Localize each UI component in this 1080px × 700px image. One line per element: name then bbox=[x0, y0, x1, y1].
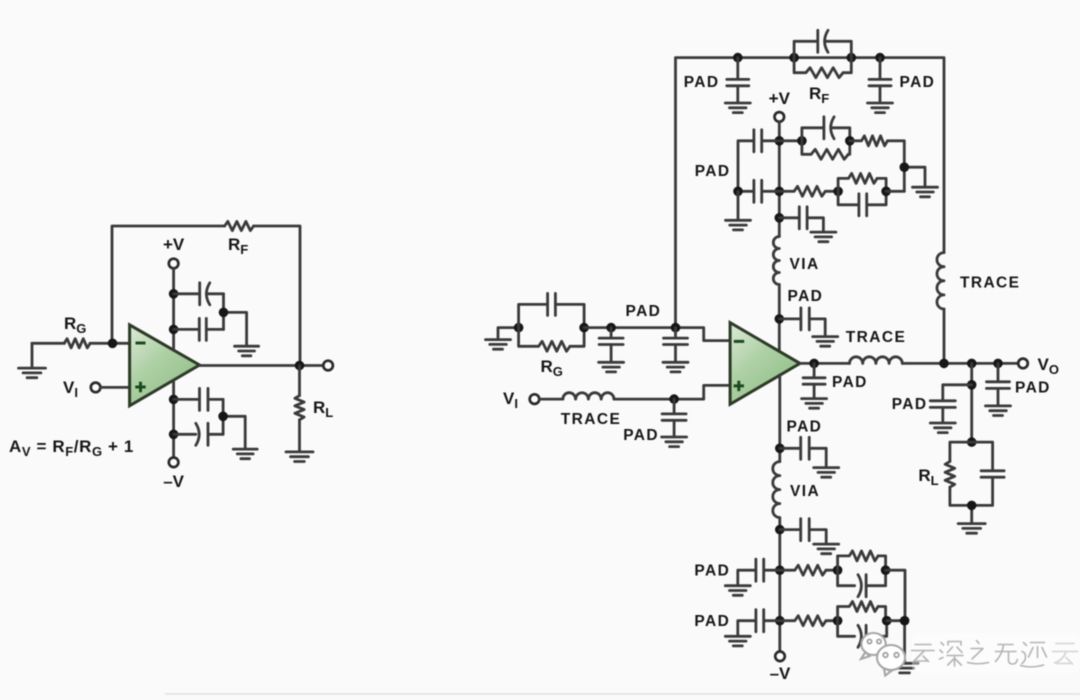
capacitor PAD -V rail lower bbox=[780, 519, 826, 544]
node input dot J bbox=[514, 323, 524, 333]
resistor +V mid parallel bbox=[838, 173, 877, 191]
node cap junction dot (-V group) bbox=[218, 412, 228, 422]
ground PAD output3 bbox=[986, 406, 1011, 416]
resistor RL right circuit bbox=[945, 461, 955, 487]
capacitor PAD output3 bbox=[987, 363, 1010, 405]
capacitor PAD at +V rail bottom bbox=[779, 308, 825, 336]
ground PAD +V left bbox=[726, 220, 751, 230]
wire RG right side bbox=[570, 328, 584, 347]
node feedback junction dot bbox=[671, 323, 681, 333]
op-amp U1 bbox=[130, 325, 200, 406]
node +V chain dot E bbox=[797, 136, 807, 146]
svg-text:TRACE: TRACE bbox=[561, 411, 621, 428]
watermark text wu bbox=[996, 645, 1018, 665]
wire +V chain parallel right bbox=[848, 141, 850, 155]
resistor -V row1 bbox=[780, 565, 826, 575]
capacitor PAD +V bottom bbox=[779, 207, 823, 232]
resistor -V row2 bbox=[780, 616, 826, 626]
node -V row2 dot C bbox=[882, 616, 892, 626]
watermark text ji bbox=[1021, 643, 1047, 667]
node output dot O bbox=[993, 359, 1003, 369]
ground input left bbox=[498, 328, 519, 339]
wire +V mid parallel top right bbox=[877, 178, 886, 191]
capacitor RL parallel bbox=[981, 471, 1004, 477]
inductor TRACE input bbox=[563, 393, 614, 399]
ground PAD -V rail upper bbox=[814, 468, 839, 478]
svg-text:PAD: PAD bbox=[900, 74, 936, 91]
node PAD +V left dot bbox=[733, 187, 743, 197]
wire -V row2 bbox=[826, 619, 838, 622]
U1 minus sign bbox=[136, 342, 146, 345]
wire +V rail right circuit bbox=[778, 122, 781, 352]
resistor RL (left circuit) bbox=[295, 396, 304, 420]
terminal -V right circuit bbox=[775, 652, 785, 662]
capacitor RF parallel branch bbox=[794, 30, 851, 57]
node output dot M bbox=[939, 359, 949, 369]
wire +V chain to ground branch bbox=[888, 141, 926, 192]
capacitor PAD -V row2 bbox=[738, 610, 780, 636]
node -V row1 dot C bbox=[881, 565, 891, 575]
ground PAD top-right bbox=[868, 103, 893, 113]
watermark text yun bbox=[912, 645, 935, 662]
node inverting input dot bbox=[108, 339, 118, 349]
terminal VI right circuit bbox=[530, 394, 540, 404]
ground +V bypass group bbox=[235, 346, 259, 356]
node output dot L bbox=[809, 359, 819, 369]
svg-text:PAD: PAD bbox=[623, 427, 659, 444]
wire -V row1 to row2 bbox=[886, 570, 905, 621]
ground PAD inverting 2 bbox=[663, 362, 688, 372]
capacitor PAD top-left bbox=[727, 58, 749, 103]
wire +V mid row bbox=[825, 190, 838, 193]
node +V chain dot F bbox=[845, 136, 855, 146]
inductor TRACE output bbox=[850, 357, 903, 364]
svg-text:PAD: PAD bbox=[788, 288, 824, 305]
svg-text:PAD: PAD bbox=[626, 303, 662, 320]
wire caps junction to ground (+V group) bbox=[224, 294, 247, 346]
svg-text:TRACE: TRACE bbox=[960, 275, 1020, 292]
svg-text:VIA: VIA bbox=[790, 256, 820, 273]
svg-text:PAD: PAD bbox=[695, 163, 731, 180]
watermark background strip bbox=[912, 633, 1080, 673]
node +V rail dot PAD bbox=[775, 314, 785, 324]
wire feedback top loop right circuit bbox=[676, 58, 945, 364]
U2 plus sign bbox=[734, 381, 744, 391]
ground PAD noninverting bbox=[662, 437, 687, 447]
inductor TRACE feedback (right vertical) bbox=[937, 253, 944, 309]
wire -V row2 to ground bbox=[887, 621, 905, 663]
watermark WeChat bubble large bbox=[861, 633, 886, 659]
resistor +V chain series bbox=[850, 136, 888, 146]
capacitor +V bypass 2 (left circuit) bbox=[174, 318, 224, 340]
node RL drop dot bbox=[967, 380, 977, 390]
terminal +V right circuit bbox=[775, 112, 785, 122]
watermark partial char right edge bbox=[1053, 644, 1078, 665]
resistor +V chain parallel bbox=[802, 141, 848, 160]
svg-text:–V: –V bbox=[770, 664, 791, 683]
wire +V rail left circuit bbox=[172, 268, 175, 350]
wire PAD +V left to ground bbox=[737, 191, 740, 219]
watermark text shen bbox=[940, 642, 964, 667]
node -V rail dot 1 bbox=[775, 444, 785, 454]
terminal -V left circuit bbox=[169, 458, 179, 468]
svg-text:PAD: PAD bbox=[832, 374, 868, 391]
svg-text:VIA: VIA bbox=[790, 483, 820, 500]
node input dot PAD1 bbox=[606, 323, 616, 333]
capacitor -V bypass 1 (left circuit) bbox=[174, 388, 224, 410]
capacitor -V row2 parallel bbox=[838, 621, 887, 648]
svg-text:PAD: PAD bbox=[787, 419, 823, 436]
svg-text:PAD: PAD bbox=[684, 74, 720, 91]
svg-text:+V: +V bbox=[769, 89, 791, 108]
node -V row1 dot bbox=[775, 565, 785, 575]
node -V row1 dot B bbox=[833, 565, 843, 575]
resistor RF right circuit bbox=[794, 58, 843, 78]
wire feedback loop left circuit bbox=[112, 226, 300, 366]
ground RL right circuit bbox=[958, 524, 985, 534]
svg-text:PAD: PAD bbox=[892, 396, 928, 413]
svg-text:PAD: PAD bbox=[694, 613, 730, 630]
node input dot PAD3 bbox=[669, 394, 679, 404]
node +V mid dot H bbox=[833, 187, 843, 197]
wire inverting input net bbox=[584, 328, 730, 341]
inductor VIA (-V rail) bbox=[773, 462, 780, 518]
node output dot N bbox=[967, 359, 977, 369]
wire RL branch bbox=[298, 366, 301, 452]
wire RF right side bbox=[843, 58, 851, 73]
capacitor -V row1 parallel bbox=[838, 570, 886, 597]
node output dot left circuit bbox=[295, 361, 305, 371]
capacitor -V bypass 2 (left circuit) bbox=[174, 423, 224, 445]
terminal VI bbox=[91, 383, 101, 393]
node +V rail dot 3 bbox=[775, 213, 785, 223]
wire +V chain row1 bbox=[779, 139, 802, 142]
node RL bottom dot bbox=[967, 501, 977, 511]
node RL top dot bbox=[967, 437, 977, 447]
wire -V row2 parallel right bbox=[878, 607, 886, 621]
wire -V rail left circuit bbox=[172, 380, 175, 457]
op-amp U2 bbox=[730, 323, 800, 405]
capacitor +V bypass 1 (left circuit) bbox=[174, 283, 224, 305]
node +V rail dot lower bbox=[169, 325, 179, 335]
wire noninverting input net bbox=[614, 385, 730, 399]
watermark bubble eyes bbox=[867, 639, 898, 657]
ground -V network bbox=[891, 663, 918, 673]
node top wire dot A bbox=[733, 53, 743, 63]
node +V mid dot I bbox=[881, 187, 891, 197]
node -V row2 dot bbox=[775, 616, 785, 626]
node -V row2 dot B bbox=[833, 616, 843, 626]
watermark WeChat bubble small bbox=[877, 645, 905, 676]
inductor VIA (+V rail) bbox=[773, 237, 779, 285]
capacitor PAD output1 bbox=[803, 363, 825, 398]
capacitor +V mid parallel bbox=[838, 191, 886, 216]
svg-text:PAD: PAD bbox=[694, 563, 730, 580]
resistor RG (left circuit) bbox=[64, 339, 90, 348]
ground -V bypass group bbox=[233, 449, 257, 459]
node +V chain dot G bbox=[900, 162, 910, 172]
ground PAD -V row2 bbox=[725, 636, 750, 646]
node -V rail dot lower bbox=[169, 430, 179, 440]
capacitor PAD top-right bbox=[869, 58, 891, 103]
node -V rail dot 2 bbox=[775, 525, 785, 535]
capacitor PAD +V upper row bbox=[738, 130, 779, 192]
resistor RF (left circuit) bbox=[225, 221, 254, 230]
wire -V row1 parallel right bbox=[878, 556, 886, 570]
ground PAD -V rail lower bbox=[814, 544, 839, 554]
ground PAD at +V rail bottom bbox=[813, 337, 838, 347]
watermark text zhi bbox=[968, 641, 989, 664]
node top wire dot D bbox=[875, 53, 885, 63]
wire VI to plus input bbox=[100, 386, 129, 389]
node top wire dot B bbox=[789, 53, 799, 63]
resistor -V row2 parallel bbox=[838, 602, 878, 621]
capacitor PAD inverting 2 bbox=[664, 328, 688, 362]
resistor -V row1 parallel bbox=[838, 551, 878, 570]
capacitor RG parallel bbox=[519, 293, 585, 327]
wire -V rail right circuit bbox=[778, 375, 781, 652]
svg-text:–V: –V bbox=[163, 472, 184, 491]
ground PAD inverting 1 bbox=[599, 362, 624, 372]
node +V rail dot 1 bbox=[775, 136, 785, 146]
resistor +V mid row bbox=[779, 186, 825, 196]
node top wire dot C bbox=[847, 53, 857, 63]
terminal +V left circuit bbox=[169, 259, 179, 269]
capacitor PAD output2 bbox=[930, 385, 971, 423]
node cap junction dot (+V group) bbox=[219, 308, 229, 318]
ground PAD top-left bbox=[725, 103, 750, 113]
node +V rail dot upper bbox=[169, 289, 179, 299]
terminal output left circuit bbox=[323, 361, 333, 371]
resistor RG right circuit bbox=[519, 328, 570, 352]
svg-text:+V: +V bbox=[163, 235, 185, 254]
svg-text:PAD: PAD bbox=[1015, 380, 1051, 397]
ground RL bbox=[286, 452, 313, 462]
wire VI to trace coil bbox=[539, 398, 563, 401]
faint bottom rule bbox=[165, 693, 1080, 695]
capacitor PAD inverting 1 bbox=[599, 328, 623, 362]
node +V rail dot 2 bbox=[775, 187, 785, 197]
U1 plus sign bbox=[135, 382, 145, 392]
ground left input bbox=[19, 343, 46, 377]
capacitor PAD noninverting bbox=[662, 399, 686, 436]
ground +V chain bbox=[913, 187, 938, 197]
capacitor PAD +V lower row bbox=[738, 180, 779, 202]
wire +V mid to right column bbox=[886, 190, 904, 193]
ground PAD +V bottom bbox=[811, 232, 836, 242]
wire RL box bbox=[950, 442, 993, 523]
ground PAD output2 bbox=[930, 423, 955, 433]
node input dot K bbox=[579, 323, 589, 333]
node -V row2 dot D bbox=[900, 616, 910, 626]
node -V rail dot upper bbox=[169, 395, 179, 405]
wire output right circuit bbox=[800, 362, 1018, 365]
wire output left circuit bbox=[200, 364, 324, 367]
wire RL drop bbox=[970, 363, 973, 442]
capacitor PAD -V row1 bbox=[738, 559, 780, 585]
svg-text:TRACE: TRACE bbox=[846, 329, 906, 346]
wire input RG net bbox=[32, 342, 130, 345]
wire -V row1 bbox=[826, 569, 838, 572]
wire caps junction to ground (-V group) bbox=[223, 399, 245, 448]
U2 minus sign bbox=[734, 340, 744, 343]
terminal VO bbox=[1018, 359, 1028, 369]
ground PAD output1 bbox=[802, 399, 827, 409]
capacitor PAD -V rail upper bbox=[780, 437, 826, 467]
ground PAD -V row1 bbox=[725, 586, 750, 596]
capacitor +V chain parallel bbox=[802, 117, 850, 141]
